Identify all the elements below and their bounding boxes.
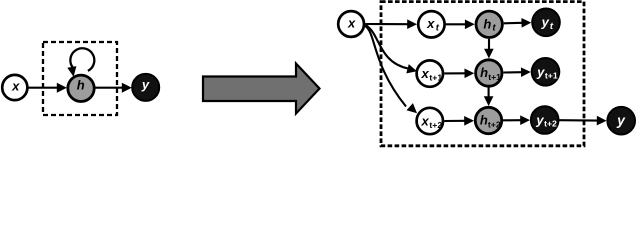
svg-text:y: y — [141, 77, 150, 92]
svg-text:t+1: t+1 — [488, 72, 501, 82]
node x_t+1 — [417, 60, 443, 86]
node y_t — [532, 8, 560, 36]
svg-text:x: x — [426, 16, 435, 31]
svg-text:t+2: t+2 — [488, 119, 501, 129]
node x (right) — [338, 11, 364, 37]
node h_t — [476, 11, 502, 37]
node h_t+1 — [476, 60, 502, 86]
node y_t+2 — [531, 106, 559, 134]
node h_t+2 — [475, 107, 501, 133]
wire: arrow x_t+2 to h_t+2 — [444, 120, 465, 122]
wire: arrow x_t to h_t — [446, 23, 466, 25]
wire: arrow h_t+2 to y_t+2 — [503, 119, 521, 121]
node x (left) — [2, 75, 27, 100]
node y (final) — [607, 107, 635, 135]
node x_t — [418, 11, 444, 37]
wire: arrow h_t+1 to h_t+2 — [488, 88, 490, 98]
wire: arrow h_t to h_t+1 — [488, 39, 490, 50]
svg-text:t+1: t+1 — [545, 71, 558, 81]
node h (left) — [68, 75, 94, 101]
svg-text:t+2: t+2 — [544, 119, 557, 129]
wire: arrow h_t to y_t — [504, 22, 523, 25]
svg-text:y: y — [541, 15, 550, 30]
svg-text:x: x — [420, 114, 429, 129]
wire: arrow h to y — [95, 87, 123, 89]
dashed box around h (left diagram) — [43, 42, 117, 115]
wire: arrow x to x_t — [365, 23, 407, 25]
big gray arrow — [203, 64, 320, 114]
node y_t+1 — [532, 58, 560, 86]
dashed box (right diagram, unrolled net) — [381, 2, 584, 146]
svg-text:x: x — [347, 16, 356, 31]
svg-text:h: h — [480, 65, 488, 80]
svg-text:h: h — [480, 113, 488, 128]
svg-text:t+1: t+1 — [429, 72, 442, 82]
svg-text:y: y — [536, 64, 545, 79]
wire: arrow y_t+2 to y — [559, 119, 597, 122]
svg-text:y: y — [535, 112, 544, 127]
svg-text:h: h — [77, 77, 85, 92]
node y (left) — [132, 74, 159, 101]
svg-text:x: x — [420, 66, 429, 81]
wire: self-loop on h — [70, 48, 94, 71]
wire: arrow h_t+1 to y_t+1 — [503, 71, 522, 73]
wire: arrow x to h — [28, 87, 57, 89]
svg-text:h: h — [483, 16, 491, 31]
svg-text:t+2: t+2 — [429, 120, 442, 130]
wire: curved arrow x to x_t+1 — [366, 25, 409, 69]
wire: arrow x_t+1 to h_t+1 — [444, 72, 465, 74]
wire: curved arrow x to x_t+2 — [365, 26, 406, 107]
node x_t+2 — [417, 108, 443, 134]
svg-text:x: x — [11, 79, 20, 94]
svg-text:y: y — [616, 112, 626, 128]
